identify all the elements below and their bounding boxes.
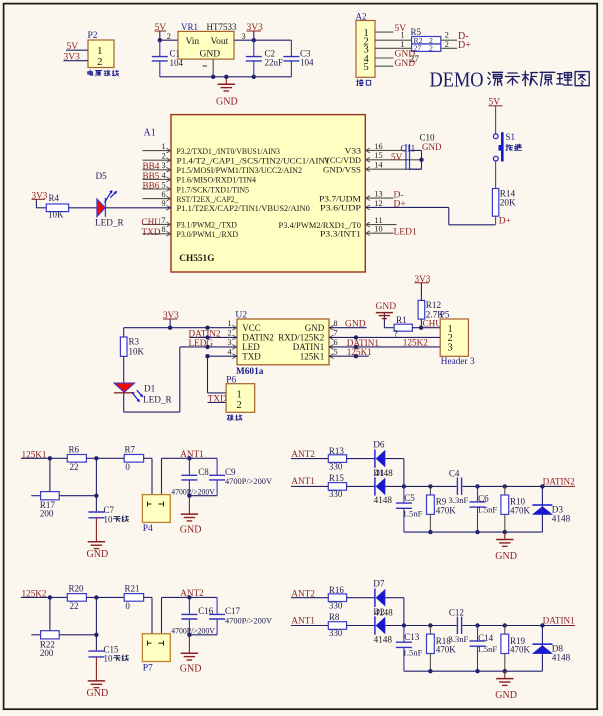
svg-text:P6: P6 (226, 375, 236, 385)
wire (420, 283, 422, 301)
wire (158, 31, 178, 42)
svg-text:C12: C12 (449, 608, 464, 618)
resistor R12 2.7K (418, 300, 444, 319)
ground (87, 518, 109, 560)
net 3V3 (32, 190, 48, 200)
svg-text:R15: R15 (329, 473, 345, 483)
svg-text:C10: C10 (420, 133, 436, 143)
wire (49, 597, 51, 634)
net ANT1 (291, 615, 315, 625)
wire (412, 326, 440, 330)
svg-text:Vin: Vin (186, 37, 200, 47)
capacitor C16 4700P (171, 597, 215, 637)
pin 13 P3.7/UDM (319, 190, 394, 204)
svg-text:ANT2: ANT2 (291, 449, 315, 459)
svg-text:D1: D1 (373, 468, 385, 478)
ground (216, 75, 238, 108)
pin 5 P1.7 (143, 180, 250, 194)
svg-text:1.5nF: 1.5nF (477, 505, 497, 515)
svg-text:2: 2 (445, 31, 449, 40)
svg-text:3: 3 (161, 161, 165, 170)
net 125K2 (403, 337, 428, 347)
wire pin5 (375, 65, 393, 67)
wire bottom rail (160, 76, 292, 78)
svg-text:10K: 10K (48, 210, 64, 220)
connector P7 (142, 634, 170, 674)
diode D2 4148 (373, 607, 393, 644)
net ANT1 (291, 476, 315, 486)
net BB6 (143, 180, 160, 190)
wire (441, 31, 457, 41)
wire (347, 458, 375, 460)
capacitor C10/C11 decoupling (401, 133, 442, 171)
wire (86, 456, 124, 460)
resistor R19 470K (501, 626, 531, 672)
svg-text:2: 2 (227, 329, 231, 338)
U2 pin 2 DATIN2 (227, 329, 273, 343)
svg-text:R7: R7 (125, 445, 136, 455)
net LEDG (189, 338, 214, 348)
wire (495, 106, 497, 134)
svg-text:P3.2/TXD1_/INT0/VBUS1/AIN3: P3.2/TXD1_/INT0/VBUS1/AIN3 (177, 146, 281, 156)
svg-text:LED1: LED1 (394, 227, 417, 237)
pin 9 P1.1 (161, 199, 310, 213)
svg-text:8: 8 (161, 225, 165, 234)
wire (495, 161, 497, 189)
capacitor C8 4700P (171, 458, 215, 498)
net DATIN2 (543, 476, 576, 486)
svg-text:10: 10 (104, 514, 114, 524)
wire (21, 595, 67, 599)
svg-text:GND: GND (376, 302, 397, 312)
svg-text:125K1: 125K1 (347, 347, 372, 357)
svg-text:104: 104 (170, 58, 184, 68)
wire (441, 40, 457, 49)
svg-text:5: 5 (333, 347, 337, 356)
svg-text:RXD/125K2: RXD/125K2 (278, 333, 324, 343)
ground (180, 635, 202, 675)
connector A2 (356, 11, 376, 77)
svg-text:HT7533: HT7533 (207, 22, 237, 32)
label 跳线 (227, 415, 242, 421)
svg-text:5: 5 (161, 180, 165, 189)
svg-text:D7: D7 (373, 579, 385, 589)
wire to P-conn pin1 (144, 458, 152, 494)
net D+ (499, 217, 511, 227)
svg-text:TXD: TXD (242, 352, 261, 362)
net CHU (423, 319, 443, 329)
svg-text:470K: 470K (436, 645, 457, 655)
wire (36, 199, 46, 208)
wire (208, 402, 227, 404)
svg-text:D2: D2 (373, 607, 385, 617)
svg-text:P1.6/MISO/RXD1/TIN4: P1.6/MISO/RXD1/TIN4 (177, 175, 257, 185)
svg-text:BB5: BB5 (143, 171, 160, 181)
wire pin4 (375, 57, 393, 59)
pin 3 (242, 32, 246, 41)
wire pin2 (375, 31, 412, 41)
resistor R20 22 (67, 584, 86, 611)
net BB4 (143, 161, 160, 171)
resistor R1 ? (394, 315, 413, 338)
resistor R5 27 (411, 27, 441, 45)
svg-text:125K2: 125K2 (403, 337, 428, 347)
svg-text:470K: 470K (510, 505, 531, 515)
value 27 (410, 55, 420, 65)
capacitor C9 4700P (189, 458, 272, 495)
resistor R6 22 (67, 445, 86, 472)
wire bottom rail (404, 669, 543, 673)
svg-text:P1.1/T2EX/CAP2/TIN1/VBUS2/AIN0: P1.1/T2EX/CAP2/TIN1/VBUS2/AIN0 (177, 203, 311, 213)
U2 pin 5 125K1 (300, 347, 338, 361)
svg-text:330: 330 (329, 601, 343, 611)
svg-text:10: 10 (374, 225, 382, 234)
svg-text:DATIN2: DATIN2 (242, 333, 273, 343)
net 5V pin15 (391, 152, 403, 162)
svg-text:R21: R21 (125, 584, 140, 594)
svg-text:C17: C17 (225, 606, 241, 616)
capacitor C7 104 (88, 505, 128, 524)
svg-text:ANT2: ANT2 (180, 588, 204, 598)
svg-text:VCC: VCC (242, 323, 261, 333)
net LED1 (394, 227, 417, 237)
svg-text:GND: GND (87, 688, 109, 699)
svg-text:10: 10 (104, 653, 114, 663)
svg-text:ANT1: ANT1 (180, 449, 204, 459)
svg-text:2: 2 (237, 400, 242, 411)
ground (87, 657, 109, 699)
capacitor C3 104 (283, 40, 314, 77)
resistor R7 0 (124, 445, 143, 472)
svg-text:GND: GND (87, 549, 109, 560)
svg-text:GND/VSS: GND/VSS (323, 165, 361, 175)
svg-text:2: 2 (429, 43, 433, 52)
svg-text:4700P/>200V: 4700P/>200V (225, 616, 272, 625)
svg-text:3.3nF: 3.3nF (449, 634, 469, 644)
svg-text:1: 1 (161, 142, 165, 151)
svg-text:GND: GND (216, 97, 238, 108)
pin 2 (167, 32, 171, 41)
svg-text:1.5nF: 1.5nF (477, 644, 497, 654)
svg-text:2: 2 (97, 56, 103, 68)
ground (180, 496, 202, 536)
svg-text:C1: C1 (170, 49, 181, 59)
wire D+ route to R14 (365, 207, 495, 224)
resistor R8 330 (328, 612, 346, 638)
wire (64, 60, 89, 62)
svg-text:ANT1: ANT1 (291, 615, 315, 625)
wire (347, 625, 375, 627)
wire (94, 597, 98, 650)
svg-text:R3: R3 (129, 337, 140, 347)
svg-text:BB4: BB4 (143, 161, 160, 171)
diode D7 4148 (373, 579, 385, 607)
svg-text:P3.0/PWM1_/RXD: P3.0/PWM1_/RXD (177, 229, 239, 239)
wire (347, 485, 375, 487)
svg-text:125K1: 125K1 (300, 352, 325, 362)
svg-text:7: 7 (161, 216, 165, 225)
svg-text:P2: P2 (88, 31, 98, 41)
net GND (395, 49, 416, 59)
svg-text:ANT2: ANT2 (291, 588, 315, 598)
net 5V (395, 24, 407, 34)
capacitor C4 3.3nF series (449, 469, 469, 505)
wire antenna rail (162, 595, 218, 634)
pin 11 P3.4/PWM2/RXD1_/T0 (279, 216, 397, 230)
wire pin7 stub (329, 336, 356, 338)
resistor R9 470K (427, 486, 457, 532)
net 5V (155, 23, 167, 33)
net DATIN1 (329, 338, 440, 349)
svg-text:9: 9 (161, 199, 165, 208)
svg-text:DATIN1: DATIN1 (543, 615, 576, 625)
pin 6 RST (143, 190, 239, 204)
svg-text:1.5nF: 1.5nF (403, 508, 423, 518)
net ANT1 (180, 449, 204, 459)
svg-text:D+: D+ (499, 217, 511, 227)
label A1 (144, 128, 156, 139)
net ANT2 (291, 588, 315, 598)
diode D3 4148 clamp (532, 486, 571, 532)
U2 pin 8 GND (305, 319, 338, 333)
pin 16 V33 (345, 142, 406, 156)
capacitor C2 22uF (246, 40, 283, 79)
svg-text:14: 14 (374, 161, 382, 170)
resistor R14 20K (492, 188, 516, 216)
resistor R18 470K (427, 626, 457, 672)
wire (291, 485, 328, 487)
net 5V (489, 98, 503, 108)
net 3V3 (415, 274, 431, 284)
wire 3V3 rail (124, 319, 237, 330)
pin 2 P1.4 (143, 152, 330, 166)
svg-text:CHU: CHU (142, 217, 162, 227)
svg-text:D+: D+ (458, 40, 471, 51)
svg-text:A1: A1 (144, 128, 156, 139)
svg-text:C13: C13 (404, 632, 420, 642)
svg-text:20K: 20K (500, 197, 516, 207)
svg-text:S1: S1 (505, 132, 515, 142)
resistor R15 330 (328, 473, 346, 499)
wire (291, 458, 328, 460)
net CHU (142, 217, 162, 227)
wire (66, 49, 88, 51)
svg-text:P3.6/UDP: P3.6/UDP (320, 203, 361, 213)
wire (291, 625, 328, 627)
connector P4 (142, 495, 170, 535)
wire to pin9 (105, 207, 171, 209)
U2 pin 6 DATIN1 (293, 338, 338, 352)
svg-text:C4: C4 (449, 469, 460, 479)
svg-text:D1: D1 (144, 384, 156, 394)
resistor R13 330 (328, 446, 346, 472)
svg-text:330: 330 (329, 628, 343, 638)
net 125K2 (22, 589, 47, 599)
IC U2 M601a body (235, 311, 329, 378)
svg-text:BB6: BB6 (143, 180, 160, 190)
wire (234, 39, 291, 41)
svg-text:P1.5/MOSI/PWM1/TIN3/UCC2/AIN2: P1.5/MOSI/PWM1/TIN3/UCC2/AIN2 (177, 165, 303, 175)
net D+ (394, 200, 406, 210)
svg-text:0: 0 (125, 601, 130, 611)
svg-text:1: 1 (227, 319, 231, 328)
net GND u2 pin8 (329, 319, 367, 329)
svg-text:22: 22 (70, 601, 79, 611)
svg-text:8: 8 (333, 319, 337, 328)
svg-text:TXD: TXD (142, 227, 161, 237)
connector P2 (88, 31, 115, 68)
svg-text:C11: C11 (401, 144, 416, 154)
wire (86, 595, 124, 599)
svg-text:4: 4 (161, 171, 165, 180)
svg-text:0: 0 (125, 462, 130, 472)
wire (291, 597, 328, 599)
svg-text:P4: P4 (143, 524, 153, 534)
net ANT2 (180, 588, 204, 598)
svg-text:5: 5 (364, 62, 369, 73)
diode D1 4148 (373, 468, 393, 505)
IC U_A1 CH551G body (171, 115, 365, 272)
net BB5 (143, 171, 160, 181)
svg-text:GND: GND (345, 319, 366, 329)
svg-text:GND: GND (305, 323, 325, 333)
pin 14 GND/VSS (323, 161, 422, 175)
svg-text:GND: GND (200, 50, 221, 60)
pin 1 P3.2 (143, 142, 281, 156)
wire (347, 597, 375, 599)
svg-text:10K: 10K (129, 346, 145, 356)
net ANT2 (291, 449, 315, 459)
svg-text:VR1: VR1 (181, 22, 198, 32)
net GND (395, 59, 416, 69)
capacitor C15 104 (88, 644, 128, 663)
wire main rail (385, 623, 561, 627)
svg-text:4148: 4148 (552, 653, 571, 663)
svg-text:LED_R: LED_R (95, 218, 124, 228)
resistor R21 0 (124, 584, 143, 611)
wire D1 loop (124, 345, 237, 412)
net 3V3 (64, 53, 81, 63)
wire pin1 (375, 31, 393, 33)
svg-text:4700P/>200V: 4700P/>200V (225, 477, 272, 486)
svg-text:D6: D6 (373, 440, 385, 450)
svg-text:6: 6 (333, 338, 337, 347)
svg-text:GND: GND (495, 551, 517, 562)
resistor R16 330 (328, 585, 346, 611)
svg-text:3: 3 (448, 342, 453, 353)
LED D5 LED_R (95, 171, 124, 228)
net DATIN2 (189, 329, 222, 339)
svg-text:22uF: 22uF (265, 58, 284, 68)
resistor R17 200 (31, 492, 96, 519)
svg-text:C14: C14 (478, 633, 494, 643)
U2 pin 3 LED (227, 338, 260, 352)
svg-text:Vout: Vout (211, 37, 229, 47)
wire (123, 328, 125, 337)
pin 3 P1.5 (143, 161, 303, 175)
svg-text:1: 1 (401, 40, 405, 49)
svg-text:D5: D5 (96, 171, 108, 181)
svg-text:?: ? (394, 329, 398, 339)
svg-text:GND: GND (495, 690, 517, 701)
svg-text:P1.4/T2_/CAP1_/SCS/TIN2/UCC1/A: P1.4/T2_/CAP1_/SCS/TIN2/UCC1/AIN1 (177, 156, 330, 166)
svg-text:470K: 470K (510, 645, 531, 655)
net 3V3 (247, 23, 264, 33)
label 接口 (357, 79, 371, 85)
connector P6 jumper (226, 375, 255, 412)
capacitor C14 1.5nF (470, 626, 498, 672)
svg-text:DEMO: DEMO (430, 68, 484, 92)
svg-text:D+: D+ (394, 200, 406, 210)
switch S1 按键 (493, 132, 521, 162)
designator P5 (440, 310, 450, 320)
wire (94, 458, 98, 511)
svg-text:C6: C6 (478, 494, 489, 504)
wire TXD to P6 (205, 354, 237, 393)
svg-text:12: 12 (374, 199, 382, 208)
svg-text:200: 200 (40, 509, 54, 519)
pin 15 VCC/VDD (324, 151, 422, 165)
wire (495, 216, 497, 225)
svg-text:2: 2 (161, 152, 165, 161)
ground (495, 671, 517, 701)
diode D6 4148 (373, 440, 385, 468)
capacitor C6 1.5nF (470, 486, 498, 532)
ground near R1 (376, 302, 397, 328)
capacitor C12 3.3nF series (449, 608, 469, 644)
svg-text:Header 3: Header 3 (441, 357, 475, 367)
net TXD (208, 394, 227, 404)
net 125K1 (22, 449, 47, 459)
wire bottom rail (404, 530, 543, 534)
svg-text:1: 1 (401, 31, 405, 40)
svg-text:1.5nF: 1.5nF (403, 648, 423, 658)
svg-text:4: 4 (227, 347, 231, 356)
svg-text:R4: R4 (49, 193, 60, 203)
svg-text:104: 104 (300, 57, 314, 67)
wire (384, 327, 394, 329)
U2 pin 1 VCC (227, 319, 260, 333)
pin 4 P1.6 (143, 171, 257, 185)
U2 pin 4 TXD (227, 347, 261, 361)
svg-text:R8: R8 (329, 612, 340, 622)
wire V33/GND loop (410, 150, 424, 169)
capacitor C17 4700P (189, 597, 272, 634)
resistor R10 470K (501, 486, 531, 532)
svg-text:ANT1: ANT1 (291, 476, 315, 486)
regulator VR1 HT7533 (178, 22, 237, 66)
svg-text:CH551G: CH551G (179, 254, 214, 264)
svg-text:R6: R6 (69, 445, 80, 455)
U2 pin 7 RXD/125K2 (278, 329, 337, 343)
pin 7 P3.1 (143, 216, 238, 230)
svg-text:P3.3/INT1: P3.3/INT1 (320, 229, 361, 239)
wire (385, 598, 404, 626)
LED D1 LED_R (114, 383, 172, 404)
wire (123, 356, 125, 383)
wire pin3 (375, 40, 412, 49)
svg-text:GND: GND (180, 664, 202, 675)
svg-text:1: 1 (237, 389, 242, 400)
resistor R22 200 (31, 631, 96, 658)
pin 12 P3.6/UDP (320, 199, 383, 213)
wire (69, 207, 97, 209)
svg-text:A2: A2 (356, 11, 367, 21)
resistor R3 10K (120, 337, 144, 357)
resistor R2 27 (412, 43, 441, 52)
wire (49, 458, 51, 495)
svg-text:LED_R: LED_R (143, 394, 172, 404)
